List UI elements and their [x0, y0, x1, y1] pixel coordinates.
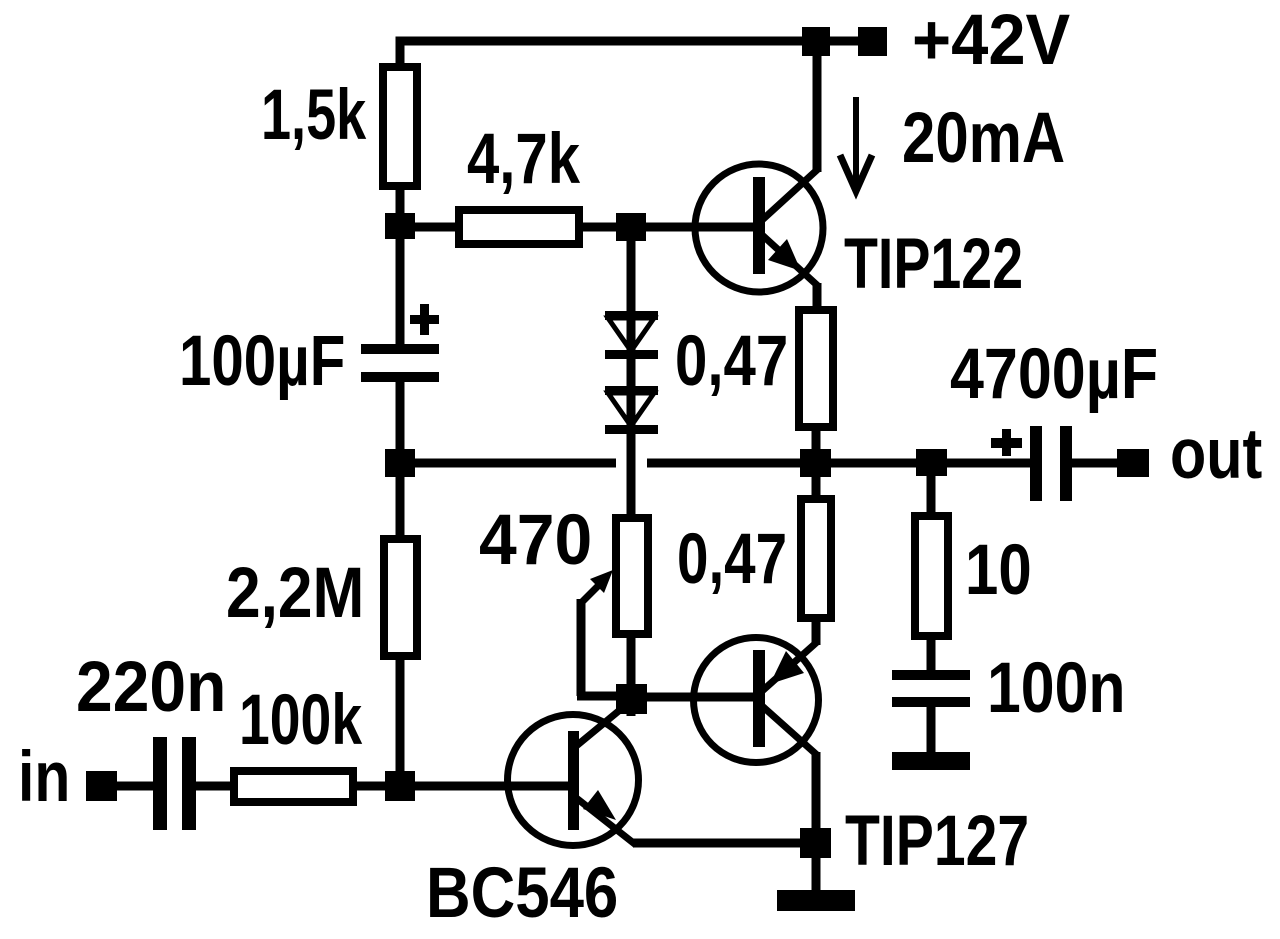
transistor Q2 TIP127 — [694, 638, 819, 763]
svg-text:TIP122: TIP122 — [844, 225, 1023, 304]
terminal in — [86, 771, 117, 801]
resistor R3 0,47 (upper) — [799, 310, 833, 427]
diode D1 — [605, 241, 658, 516]
terminal out — [1117, 449, 1149, 477]
ground (Zobel) — [892, 752, 970, 770]
wire Q1 collector — [813, 41, 822, 172]
wire Q3 collector to node F — [627, 706, 636, 716]
current arrow 20mA — [840, 97, 872, 199]
capacitor C4 4700uF — [991, 426, 1072, 501]
wire R4 top lead — [812, 477, 821, 499]
wire R1 bottom lead — [396, 186, 405, 216]
node G (Q2 collector / Q3 emitter / ground) — [800, 828, 831, 858]
wire node E to Q3 base — [415, 782, 570, 791]
node A (R1/R2/C1) — [385, 213, 415, 239]
svg-text:TIP127: TIP127 — [845, 802, 1029, 881]
diode D2 — [605, 386, 658, 434]
node C (output rail / R3 / R4) — [800, 449, 831, 477]
node F (470 / wiper / Q2 base / Q3 collector) — [616, 684, 647, 714]
wire output rail — [415, 459, 1119, 468]
svg-text:0,47: 0,47 — [675, 322, 788, 401]
capacitor C3 100n — [892, 670, 970, 707]
wire node G to ground — [812, 858, 821, 892]
resistor R8 10 — [915, 516, 948, 636]
ground (main) — [777, 890, 855, 911]
resistor R7 470 (trimmer) — [616, 518, 648, 688]
svg-text:100k: 100k — [239, 681, 362, 760]
wire Q2 collector lead — [812, 752, 821, 832]
wire R5 top lead — [396, 477, 405, 539]
wire C3 to ground — [927, 705, 936, 754]
transistor Q3 BC546 — [508, 700, 639, 846]
wire R5 bottom lead — [396, 656, 405, 775]
capacitor C1 100uF — [361, 239, 439, 452]
svg-text:10: 10 — [965, 531, 1032, 610]
wire R3 bottom lead — [812, 427, 821, 453]
wire Q1 emitter lead — [813, 283, 822, 312]
svg-text:out: out — [1170, 415, 1262, 494]
svg-text:20mA: 20mA — [902, 99, 1065, 178]
resistor R1 1,5k — [383, 67, 417, 186]
capacitor C2 220n — [153, 737, 196, 830]
svg-text:+42V: +42V — [912, 1, 1070, 80]
wire R2 to node B — [579, 223, 620, 232]
wire in to C2 — [117, 782, 155, 791]
svg-text:4,7k: 4,7k — [467, 120, 580, 199]
node B (R2/diodes/Q1 base) — [616, 213, 646, 241]
node D (C1 / R5 / rail) — [385, 449, 415, 477]
svg-text:100µF: 100µF — [179, 322, 345, 401]
transistor Q1 TIP122 — [695, 164, 823, 292]
node E (input node) — [385, 771, 415, 801]
svg-text:470: 470 — [479, 501, 592, 580]
svg-text:in: in — [18, 738, 70, 817]
svg-text:4700µF: 4700µF — [950, 335, 1158, 414]
wire Q3 emitter to node G — [633, 839, 802, 848]
svg-text:0,47: 0,47 — [677, 520, 787, 599]
resistor R6 100k — [234, 771, 353, 802]
wire R4 bottom / Q2 emitter — [812, 618, 821, 645]
svg-text:BC546: BC546 — [426, 854, 618, 933]
wire node H to R8 — [927, 476, 936, 516]
resistor R5 2,2M — [384, 539, 417, 656]
wire top rail +42V — [396, 37, 873, 67]
wire R8 to C3 — [927, 636, 936, 672]
node V+ junction — [802, 27, 830, 56]
svg-text:1,5k: 1,5k — [261, 76, 367, 155]
resistor R4 0,47 (lower) — [801, 499, 831, 618]
svg-text:2,2M: 2,2M — [226, 554, 364, 633]
node H (Zobel tap) — [916, 449, 947, 476]
wire node B to Q1 base — [646, 223, 756, 232]
svg-text:220n: 220n — [76, 648, 226, 727]
wire node A to R2 — [415, 223, 459, 232]
wire R6 to node E — [353, 782, 387, 791]
svg-text:100n: 100n — [987, 649, 1126, 728]
wire node F to Q2 base — [647, 693, 756, 702]
wiper arm R7 — [577, 570, 620, 696]
wire C2 to R6 — [196, 782, 236, 791]
terminal +42V — [858, 27, 887, 56]
resistor R2 4,7k — [459, 210, 579, 244]
